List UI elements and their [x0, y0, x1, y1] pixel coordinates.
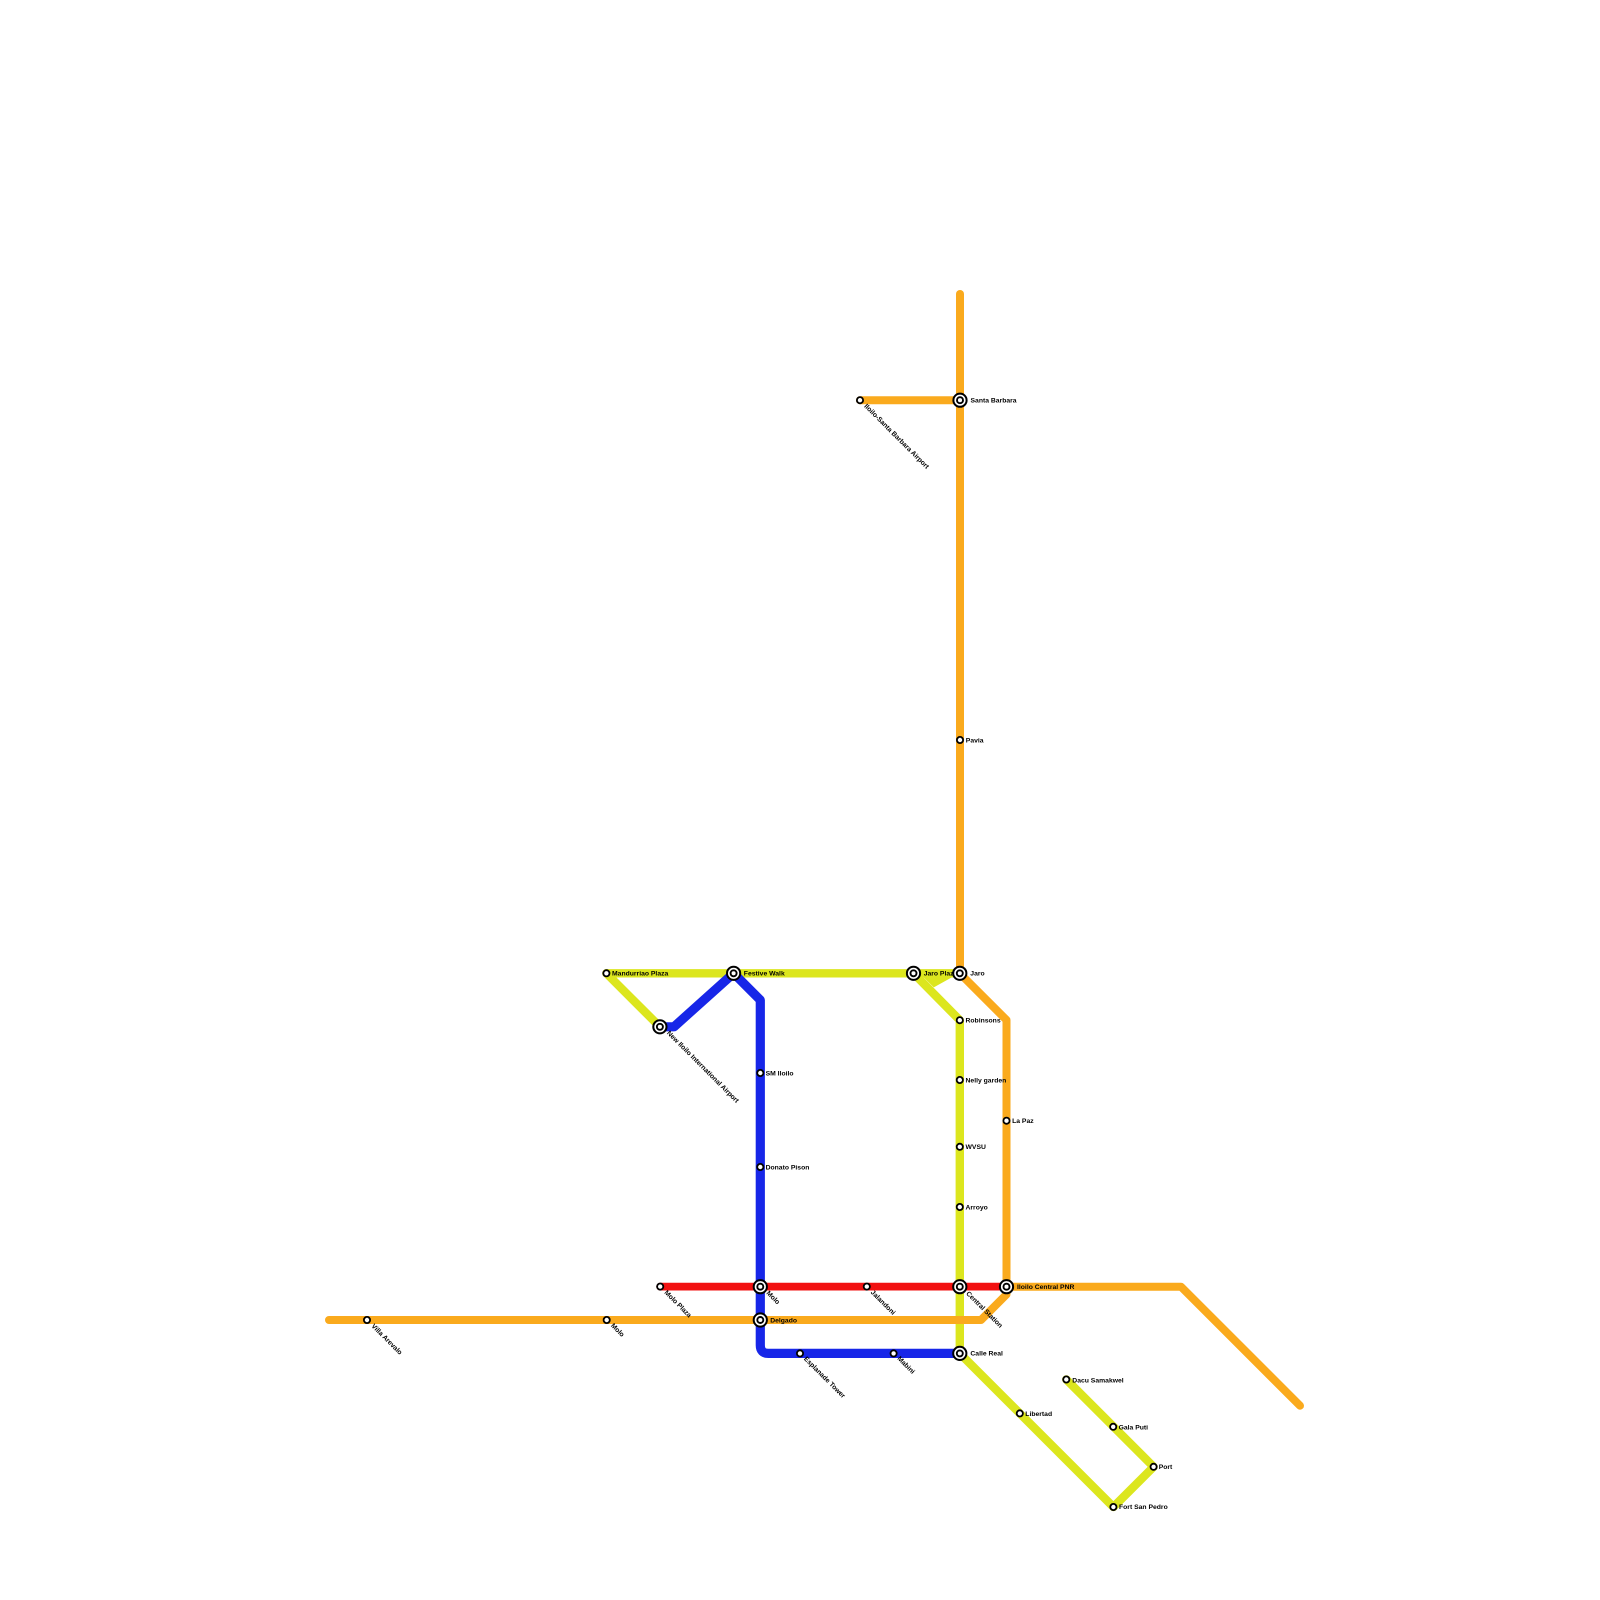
interchange New Iloilo International Airport — [653, 1020, 666, 1033]
interchange Santa Barbara — [953, 394, 966, 407]
wire blue New Iloilo International Airport - Festive Walk — [660, 973, 734, 1027]
station Villa Arevalo — [364, 1317, 370, 1323]
wire orange vertical top - Santa Barbara - Pavia - Jaro — [956, 294, 964, 973]
svg-text:SM Iloilo: SM Iloilo — [766, 1070, 794, 1077]
station Robinsons — [957, 1017, 963, 1023]
station Esplanade Tower — [797, 1350, 803, 1356]
wire lime Calle Real - Libertad - Fort San Pedro - Port - Gala Puti - Dacu Samakwel — [960, 1353, 1154, 1507]
station WVSU — [957, 1144, 963, 1150]
station Mandurriao Plaza — [603, 970, 609, 976]
interchange Molo — [754, 1280, 767, 1293]
svg-text:La Paz: La Paz — [1012, 1118, 1034, 1125]
wire orange Jaro - elbow - La Paz - Iloilo Central PNR — [960, 973, 1007, 1286]
station SM Iloilo — [757, 1070, 763, 1076]
station Nelly garden — [957, 1077, 963, 1083]
station Libertad — [1017, 1410, 1023, 1416]
wire lime horizontal Mandurriao Plaza - Festive Walk - Jaro Plaza - Jaro — [606, 969, 959, 977]
svg-text:Robinsons: Robinsons — [966, 1018, 1001, 1025]
svg-text:Mandurriao Plaza: Mandurriao Plaza — [612, 971, 668, 978]
wire orange east Iloilo Central PNR - elbow - southeast end — [1007, 1287, 1301, 1406]
interchange Delgado — [754, 1313, 767, 1326]
station Arroyo — [957, 1204, 963, 1210]
wire blue Festive Walk - SM Iloilo - Donato Pison - Molo - Delgado - corner - Esplanade Tower - Mabini - Calle Real — [734, 973, 960, 1353]
wire orange branch Iloilo-Santa Barbara Airport - Santa Barbara — [860, 396, 960, 404]
svg-text:Jaro: Jaro — [970, 971, 984, 978]
station Iloilo-Santa Barbara Airport — [857, 397, 863, 403]
interchange Central Station — [953, 1280, 966, 1293]
wire orange west horizontal end - Villa Arevalo - Molo - Delgado - elbow - Iloilo Central PNR — [329, 1287, 1007, 1320]
station Molo (orange west) — [604, 1317, 610, 1323]
station Gala Puti — [1110, 1424, 1116, 1430]
station Pavia — [957, 737, 963, 743]
svg-text:Santa Barbara: Santa Barbara — [971, 398, 1017, 405]
svg-text:Pavia: Pavia — [966, 737, 984, 744]
wire lime diagonal Mandurriao Plaza - New Iloilo International Airport — [606, 973, 660, 1027]
wire lime Jaro Plaza - Robinsons - Central Station - Calle Real — [914, 973, 960, 1353]
station Jalandoni — [864, 1284, 870, 1290]
svg-text:Nelly garden: Nelly garden — [966, 1077, 1007, 1084]
svg-text:Calle Real: Calle Real — [970, 1350, 1003, 1357]
svg-text:WVSU: WVSU — [966, 1144, 986, 1151]
interchange Calle Real — [953, 1347, 966, 1360]
station Fort San Pedro — [1110, 1504, 1116, 1510]
svg-text:Fort San Pedro: Fort San Pedro — [1119, 1504, 1168, 1511]
svg-text:Delgado: Delgado — [770, 1318, 797, 1325]
interchange Jaro — [953, 967, 966, 980]
wire red Molo Plaza - Molo - Jalandoni - Central Station - Iloilo Central PNR — [660, 1283, 1006, 1291]
station Dacu Samakwel — [1063, 1376, 1069, 1382]
interchange Jaro Plaza — [907, 967, 920, 980]
svg-text:Arroyo: Arroyo — [966, 1204, 988, 1211]
svg-text:Libertad: Libertad — [1025, 1411, 1052, 1418]
interchange Iloilo Central PNR — [1000, 1280, 1013, 1293]
svg-text:Festive Walk: Festive Walk — [744, 971, 785, 978]
interchange Festive Walk — [727, 967, 740, 980]
svg-text:Donato Pison: Donato Pison — [766, 1164, 810, 1171]
station Mabini — [891, 1350, 897, 1356]
svg-text:Iloilo Central PNR: Iloilo Central PNR — [1017, 1284, 1074, 1291]
svg-text:Port: Port — [1159, 1464, 1173, 1471]
svg-text:Gala Puti: Gala Puti — [1119, 1425, 1149, 1432]
station Donato Pison — [757, 1164, 763, 1170]
station Port — [1151, 1464, 1157, 1470]
station Molo Plaza — [657, 1284, 663, 1290]
station La Paz — [1003, 1118, 1009, 1124]
svg-text:Dacu Samakwel: Dacu Samakwel — [1072, 1377, 1123, 1384]
wire lime wedge at Jaro Plaza junction — [924, 977, 953, 987]
